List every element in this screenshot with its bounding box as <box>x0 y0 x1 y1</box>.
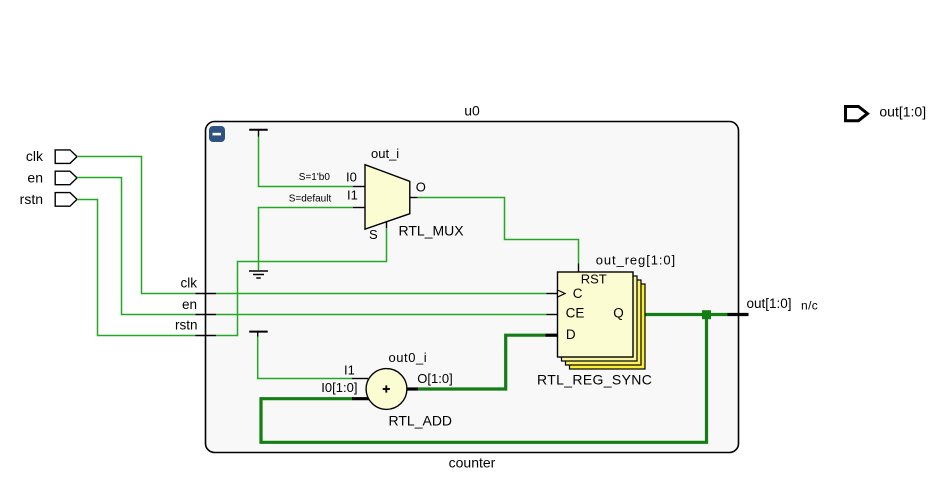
svg-text:RTL_MUX: RTL_MUX <box>399 223 465 239</box>
wire en inside block to register CE <box>216 314 547 316</box>
svg-text:S=default: S=default <box>289 194 332 205</box>
wire clk net (port to block pin) <box>77 157 196 294</box>
pin stub I0[1:0] (adder) <box>352 397 369 400</box>
ground symbol (mux I1) <box>249 271 268 278</box>
svg-text:en: en <box>27 170 43 186</box>
wire ground to mux I1 <box>259 208 354 271</box>
wire rstn inside block to mux S <box>216 228 387 336</box>
svg-text:out[1:0]: out[1:0] <box>747 296 792 311</box>
pin stub clk on block border <box>196 293 217 295</box>
svg-text:RTL_REG_SYNC: RTL_REG_SYNC <box>537 372 652 388</box>
svg-text:D: D <box>566 327 576 342</box>
plus sign <box>383 385 390 392</box>
constant-1 supply symbol (mux I0) <box>249 130 268 137</box>
svg-text:RST: RST <box>581 272 607 287</box>
wire constant to adder I1 <box>258 337 352 379</box>
wire rstn net (port to block pin) <box>77 200 196 336</box>
svg-text:clk: clk <box>26 148 44 164</box>
collapse button <box>209 126 225 142</box>
pin stub C <box>547 293 558 295</box>
pin stub D <box>546 334 558 337</box>
svg-text:rstn: rstn <box>20 191 43 207</box>
svg-text:en: en <box>182 297 197 312</box>
svg-text:O: O <box>416 180 426 195</box>
pin stub CE <box>547 314 558 316</box>
svg-text:Q: Q <box>613 306 624 321</box>
svg-text:I0[1:0]: I0[1:0] <box>321 380 357 395</box>
constant-1 supply symbol (adder I1) <box>249 332 268 337</box>
pin stub O (mux) <box>410 197 418 199</box>
svg-text:out_reg[1:0]: out_reg[1:0] <box>596 253 676 268</box>
module block u0 (counter) <box>206 122 739 453</box>
pin stub en on block border <box>196 314 217 316</box>
wire mux O to register RST <box>418 198 579 264</box>
wire clk inside block to register C <box>216 293 547 295</box>
pin stub I1 (adder) <box>352 378 368 380</box>
wire en net (port to block pin) <box>77 178 196 315</box>
bus adder O[1:0] to register D <box>418 335 545 389</box>
pin stub out[1:0] on block border <box>728 313 749 316</box>
register out_reg[1:0] front <box>558 272 634 357</box>
pin stub RST <box>578 263 580 272</box>
bus register Q to block pin out[1:0] <box>644 313 728 316</box>
svg-text:out[1:0]: out[1:0] <box>879 104 926 120</box>
svg-text:CE: CE <box>566 306 585 321</box>
input port rstn <box>55 193 77 207</box>
pin stub S <box>386 221 388 228</box>
bus feedback Q down and around to adder I0 <box>261 315 707 443</box>
pin stub O[1:0] (adder) <box>407 387 418 390</box>
register out_reg[1:0] RTL_REG_SYNC stacked layers <box>562 276 646 369</box>
adder out0_i RTL_ADD <box>366 369 407 410</box>
svg-text:u0: u0 <box>464 102 480 118</box>
svg-text:clk: clk <box>181 275 198 290</box>
svg-text:C: C <box>573 286 583 301</box>
svg-text:rstn: rstn <box>175 318 198 333</box>
svg-text:S: S <box>369 227 378 242</box>
clock triangle C <box>558 290 566 297</box>
pin stub I1 <box>353 207 365 209</box>
input port en <box>55 171 77 185</box>
svg-text:I1: I1 <box>344 363 355 378</box>
pin stub Q <box>633 313 645 316</box>
mux out_i RTL_MUX <box>365 165 410 229</box>
svg-text:counter: counter <box>449 455 496 471</box>
svg-text:out0_i: out0_i <box>389 350 428 365</box>
input port clk <box>55 150 77 164</box>
svg-text:RTL_ADD: RTL_ADD <box>389 412 453 428</box>
pin stub I0 <box>353 186 365 188</box>
svg-text:I0: I0 <box>346 169 357 184</box>
junction on out bus <box>702 310 711 319</box>
svg-text:n/c: n/c <box>801 298 818 312</box>
svg-text:S=1'b0: S=1'b0 <box>299 172 331 183</box>
wire constant to mux I0 <box>259 137 354 187</box>
svg-text:O[1:0]: O[1:0] <box>417 371 452 386</box>
svg-text:I1: I1 <box>347 188 358 203</box>
output port out[1:0] (top right) <box>846 107 868 121</box>
svg-text:out_i: out_i <box>371 146 399 161</box>
pin stub rstn on block border <box>196 335 217 337</box>
